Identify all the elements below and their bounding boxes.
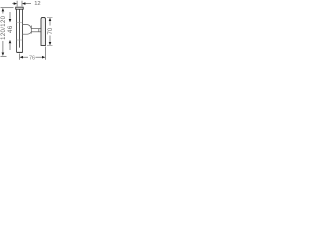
svg-text:70: 70: [48, 27, 54, 34]
svg-text:76: 76: [29, 55, 35, 61]
svg-text:12: 12: [34, 1, 40, 7]
svg-text:46: 46: [8, 25, 14, 33]
svg-text:120/120: 120/120: [1, 15, 7, 39]
